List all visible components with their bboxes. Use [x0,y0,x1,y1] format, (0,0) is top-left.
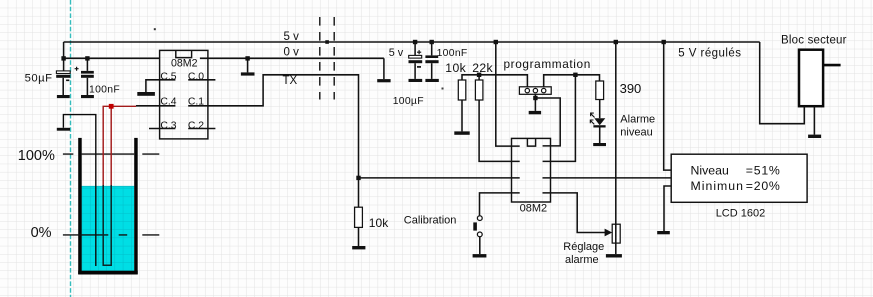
svg-text:10k: 10k [445,61,466,75]
node junction J1 pin2 [533,96,537,100]
svg-text:100%: 100% [18,148,55,164]
wire 0v right end drop [383,58,385,79]
pin C.3 label [160,120,176,131]
wire 5v rail [64,41,760,43]
arrowhead pot wiper [605,229,613,237]
level line 100% [63,153,159,155]
wire rail to LCD vdd [664,42,672,170]
node junction LED net [573,73,577,77]
potentiometer RV1 reglage [612,42,620,254]
resistor R-22k [475,75,483,100]
ground LCD [657,231,670,234]
svg-text:0 v: 0 v [284,46,300,58]
pin C.4 label [160,96,176,107]
node red junction [109,104,114,109]
wire pin C.3 stub [149,128,175,130]
label programmation [504,57,591,71]
node junction 100nF2 on rail [430,40,434,44]
label TX [283,75,298,87]
label 5 V regules [678,47,741,59]
svg-text:10k: 10k [369,216,390,230]
label niveau [620,126,652,138]
wire LCD gnd pin [664,186,671,231]
svg-text:100nF: 100nF [89,85,120,96]
ground J1 pin2 [529,111,541,114]
LCD 1602 module [671,154,807,202]
svg-text:C.5: C.5 [160,71,176,82]
svg-text:Minimun: Minimun [691,179,744,193]
wire J1 pin3 to 390 [544,75,600,87]
svg-text:50µF: 50µF [25,73,53,85]
ground 100uF [409,79,423,82]
label Alarme [620,113,655,125]
label 10k pullup [445,61,466,75]
label alarme [565,254,599,266]
node junction rail to pot [614,40,618,44]
water fill [82,186,135,271]
svg-text:=51%: =51% [746,163,781,177]
svg-text:programmation: programmation [504,57,591,71]
speck [154,28,156,30]
resistor R-390 [596,81,604,118]
ground 10k pullup [454,131,469,134]
svg-text:08M2: 08M2 [171,57,198,69]
ground 100nF-left [81,95,94,98]
capacitor C3 100uF [409,42,423,79]
wire bloc secteur to ground [813,106,815,134]
connector J1 programmation [519,87,551,95]
node junction 100nF-left [85,56,89,60]
wire U2 to pot wiper [543,193,606,233]
svg-text:TX: TX [283,75,298,87]
svg-text:22k: 22k [472,61,493,75]
LED D1 alarme [590,113,606,143]
ground bloc secteur [808,135,821,138]
node junction 0v-left [61,56,65,60]
wire J1 pin2 to U2 serial-out [535,98,560,146]
wire pin C.5 stub to ground [146,80,176,92]
svg-text:100nF: 100nF [437,48,468,59]
wire red electrode pair upper [103,106,136,186]
node junction 0v-ground [245,56,249,60]
separator dashed line left [319,17,321,100]
label 0% [31,225,52,241]
teal guide line [70,0,72,297]
label U2 08M2 [520,202,548,214]
svg-text:niveau: niveau [620,126,652,138]
switch S1 calibration [473,216,482,254]
tank bottom [78,271,138,275]
wire 5v left drop to 50uF [63,42,65,71]
resistor R-10k divider [355,178,363,246]
label LCD 1602 [716,208,766,220]
label 100nF left [89,85,120,96]
svg-text:Bloc secteur: Bloc secteur [781,35,847,47]
ground black electrode [57,128,70,131]
resistor R-10k pullup [458,80,466,131]
wire 0v rail right segment [200,57,384,59]
level line 0% [63,234,159,236]
wire 0v rail left segment [64,57,160,59]
label 10k divider [369,216,390,230]
svg-text:Niveau: Niveau [691,163,729,177]
wire U2 to calibration switch [480,193,520,216]
label 5 v [284,31,300,43]
label 22k [472,61,493,75]
svg-text:=20%: =20% [746,179,781,193]
svg-text:5 v: 5 v [389,47,404,59]
node junction rail to U2 power [494,40,498,44]
node junction 22k top [477,73,481,77]
label 100% [18,148,55,164]
node junction TX divider [356,176,360,180]
svg-text:08M2: 08M2 [520,202,548,214]
label Calibration [404,214,457,226]
wire TX junction to U2 input [359,177,520,179]
pin C.5 label [160,71,176,82]
pin C.1 label [188,96,204,107]
label Bloc secteur [781,35,847,47]
wire TX from pin C.1 [188,75,358,178]
wire pin C.0 stub [188,79,215,81]
label 5 v regulated input [389,47,404,59]
label LCD line1 [691,163,781,177]
svg-text:alarme: alarme [565,254,599,266]
node junction 100uF on rail [413,40,417,44]
svg-text:100µF: 100µF [393,96,424,107]
wire 0v to ground [247,58,249,72]
svg-text:0%: 0% [31,225,52,241]
capacitor C2 100nF [81,58,94,95]
wire pullup top rail [462,75,527,87]
label 100uF [393,96,424,107]
node junction rail to LCD [662,40,666,44]
node dot on rail between separators [325,40,329,44]
pin C.0 label [188,71,204,82]
label Reglage [563,241,604,253]
wire pin C.2 stub [188,128,215,130]
svg-text:Réglage: Réglage [563,241,604,253]
ground 0v-mid [241,72,255,75]
wire LED net to U2 [543,75,576,162]
label 50uF [25,73,53,85]
wire red electrode pair in water [103,185,111,265]
svg-text:390: 390 [620,81,642,96]
label U1 08M2 [171,57,198,69]
wire rail down to U2 power pin [496,42,520,146]
capacitor C4 100nF [425,42,438,79]
svg-text:5 v: 5 v [284,31,300,43]
separator dashed line right [333,17,335,100]
svg-text:C.3: C.3 [160,120,176,131]
svg-text:C.0: C.0 [188,71,204,82]
label 390 [620,81,642,96]
wire U2 output to LCD [543,177,672,179]
label LCD line2 [691,179,781,193]
wire 22k to U2 serial-in [479,100,520,161]
ground switch [473,254,487,257]
tank left wall [78,138,82,274]
power block bloc secteur [799,50,841,106]
label 100nF right [437,48,468,59]
tank right wall [134,138,138,274]
capacitor C1 50uF [56,67,78,95]
wire pin C.4 stub [136,105,175,107]
svg-text:Alarme: Alarme [620,113,655,125]
svg-text:C.2: C.2 [188,120,204,131]
svg-text:Calibration: Calibration [404,214,457,226]
ground 100nF2 [425,79,438,82]
svg-text:LCD 1602: LCD 1602 [716,208,766,220]
ground 0v-right [377,79,390,82]
op-amp U1 08M2 body [160,50,208,138]
wire bloc secteur to rail [760,42,805,124]
label 0 v [284,46,300,58]
ground LED [593,143,606,146]
pin C.2 label [188,120,204,131]
ground pot [606,254,622,257]
ground 10k divider [352,246,365,249]
wire black electrode [63,115,95,266]
svg-text:5 V régulés: 5 V régulés [678,47,741,59]
ground 50uF [57,95,70,98]
speck2 [442,88,444,90]
op-amp U2 08M2 body [512,138,551,202]
wire J1 pin2 down [534,94,536,111]
ground pin C.5 [137,92,155,96]
